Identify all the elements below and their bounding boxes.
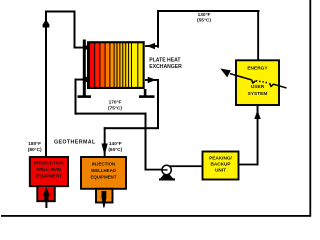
wire injection drop from HX <box>157 79 159 129</box>
radiator arrowhead <box>220 69 231 78</box>
injection wellhead block <box>102 191 107 199</box>
production well pipe <box>45 202 47 209</box>
wire pump inlet <box>145 169 163 171</box>
wire secondary supply drop 2 <box>145 113 147 170</box>
svg-text:EXCHANGER: EXCHANGER <box>149 64 182 70</box>
svg-text:(55°C): (55°C) <box>197 18 211 24</box>
svg-text:(80°C): (80°C) <box>28 147 42 153</box>
svg-text:EQUIPMENT: EQUIPMENT <box>36 174 62 179</box>
svg-text:130°F: 130°F <box>198 12 211 18</box>
arrow out of HX bottom-right <box>148 77 157 83</box>
HX stripe 4 <box>106 43 110 87</box>
plate heat exchanger body <box>87 41 145 89</box>
svg-text:(60°C): (60°C) <box>108 147 122 153</box>
HX stripe 12 <box>132 43 137 87</box>
HX stripe 10 <box>126 43 128 87</box>
wire pump outlet <box>170 165 203 167</box>
HX stripe 11 <box>129 43 131 87</box>
svg-text:INJECTION: INJECTION <box>92 161 115 166</box>
svg-text:PEAKING/: PEAKING/ <box>209 155 232 160</box>
wire left downcomer <box>74 11 76 49</box>
svg-text:WELLHEAD: WELLHEAD <box>91 168 116 173</box>
wire injection downcomer <box>104 127 106 157</box>
wire injection horizontal <box>104 127 159 129</box>
HX left clamp bar <box>83 40 86 96</box>
injection well pedestal <box>96 189 113 203</box>
HX stripe 7 <box>118 43 120 87</box>
svg-text:PLATE HEAT: PLATE HEAT <box>149 58 181 64</box>
HX stripe 5 <box>110 43 113 87</box>
production well pedestal <box>37 186 55 201</box>
production well arrow up <box>43 187 50 196</box>
svg-text:WELLHEAD: WELLHEAD <box>36 167 61 172</box>
wire stub into HX top-left <box>74 47 90 49</box>
svg-text:(75°C): (75°C) <box>108 105 122 111</box>
svg-text:UNIT: UNIT <box>215 167 226 172</box>
HX stripe 13 <box>138 43 142 87</box>
wire secondary supply drop <box>75 79 77 115</box>
wire top-right rail horizontal <box>157 10 260 12</box>
HX stripe 6 <box>115 43 117 87</box>
wire secondary supply horizontal <box>75 113 147 115</box>
HX left foot <box>78 95 92 98</box>
svg-text:PRODUCTION: PRODUCTION <box>34 161 64 166</box>
wire EUS top feed <box>257 10 259 61</box>
svg-text:ENERGY: ENERGY <box>247 66 268 72</box>
HX stripe 3 <box>100 43 104 87</box>
frame right border <box>309 0 311 217</box>
svg-text:GEOTHERMAL: GEOTHERMAL <box>54 140 96 146</box>
svg-text:140°F: 140°F <box>109 141 122 147</box>
arrow into HX top-right <box>147 43 156 49</box>
arrow down into injection box <box>102 144 108 156</box>
wire stub out of HX bottom-left <box>75 79 90 81</box>
wire production riser <box>45 11 47 157</box>
svg-text:170°F: 170°F <box>109 100 122 106</box>
ground line <box>1 215 311 217</box>
wire stub HX top-right <box>145 45 159 47</box>
HX stripe 1 <box>90 43 94 87</box>
production wellhead block <box>44 196 48 203</box>
wire top-left rail horizontal <box>45 11 76 13</box>
arrow into HX top-left <box>84 44 91 50</box>
arrow out of HX bottom-left <box>80 76 89 82</box>
radiator arrow through EUS <box>230 74 287 88</box>
svg-text:SYSTEM: SYSTEM <box>248 91 268 97</box>
injection well arrow down <box>102 199 106 208</box>
production wellhead equipment box <box>30 157 68 186</box>
svg-text:180°F: 180°F <box>28 141 41 147</box>
wire stub HX bottom-right <box>145 79 159 81</box>
peaking backup unit box <box>203 152 239 180</box>
HX right leg <box>144 89 147 97</box>
HX stripe 8 <box>120 43 122 87</box>
energy user system box <box>236 60 279 105</box>
injection wellhead equipment box <box>81 157 126 189</box>
pump P1 <box>159 165 175 180</box>
HX right foot <box>139 95 155 98</box>
wire peaking to EUS riser <box>239 164 259 166</box>
svg-text:EQUIPMENT: EQUIPMENT <box>90 174 116 179</box>
HX stripe 9 <box>123 43 125 87</box>
svg-text:USER: USER <box>251 84 265 90</box>
svg-text:BACKUP: BACKUP <box>210 161 230 166</box>
wire right riser to top rail <box>157 10 159 48</box>
arrow up into EUS <box>254 110 260 119</box>
radiator arrow dots <box>256 80 267 83</box>
HX stripe 2 <box>95 43 99 87</box>
arrow up on production riser <box>43 20 50 28</box>
